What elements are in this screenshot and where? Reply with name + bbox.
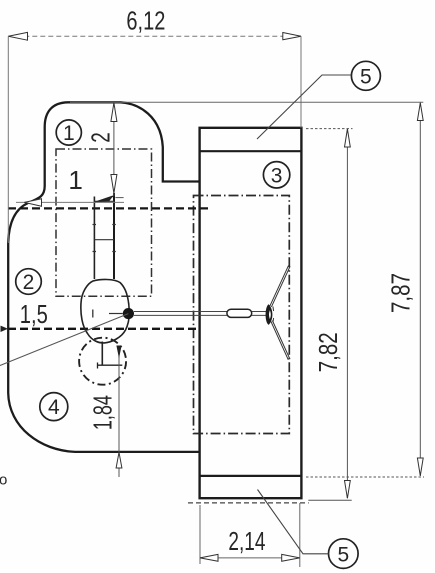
pin top edge [94, 200, 114, 202]
V lower arm [271, 321, 289, 360]
dash-dot rectangle region 1 [56, 149, 152, 296]
svg-text:7,82: 7,82 [315, 332, 343, 372]
6,12 left arrow [8, 32, 27, 40]
top extension line y=102 [70, 101, 423, 103]
balloon 5 bottom leader [258, 490, 329, 554]
7,82 bottom extension [308, 499, 351, 501]
balloon 5 bottom [329, 539, 359, 569]
balloon 5 top [351, 61, 380, 90]
svg-text:1: 1 [68, 165, 82, 195]
6,12 right extension line [300, 36, 302, 128]
6,12 left extension line [7, 36, 9, 243]
pin cross line [94, 239, 114, 241]
center line dashed upper [8, 207, 211, 209]
leader from pivot dot to lower left [0, 314, 128, 366]
dimension 1,5 line [16, 201, 124, 203]
svg-text:7,87: 7,87 [388, 273, 416, 313]
svg-text:2: 2 [86, 132, 116, 143]
svg-text:4: 4 [48, 396, 60, 419]
7,82 top arrow [345, 129, 351, 147]
svg-text:5: 5 [360, 66, 372, 89]
bottom hidden dashed line [188, 502, 309, 504]
dimension 2 vertical line [113, 103, 115, 196]
balloon 5 top leader [257, 75, 351, 139]
balloon 1 [56, 120, 81, 145]
7,82 bottom arrow [345, 481, 351, 499]
phantom dash-dot circle [79, 338, 126, 385]
svg-text:1: 1 [63, 122, 75, 145]
svg-text:1,5: 1,5 [20, 301, 48, 329]
center line dashed lower [8, 328, 197, 330]
2,14 left arrow [200, 554, 218, 561]
slanted arrow at pin top [95, 196, 113, 202]
V upper arm [270, 266, 289, 307]
dimension 7,87 vertical line [419, 103, 421, 477]
svg-text:5: 5 [337, 543, 349, 566]
7,87 bottom dashed extension [306, 476, 424, 478]
balloon 3 [263, 162, 289, 188]
2,14 right arrow [282, 554, 300, 561]
body outline left part view [8, 102, 200, 452]
2,14 right extension [299, 503, 301, 567]
dimension 7,82 vertical line [346, 129, 348, 498]
7,82 top dashed extension [306, 128, 353, 130]
cam blob outline [81, 279, 129, 342]
dimension 2,14 line [200, 557, 300, 559]
dimension 1,84 vertical line [118, 346, 120, 477]
2 top arrow [111, 103, 117, 122]
svg-text:o: o [0, 472, 7, 489]
1,5 left arrow [24, 199, 41, 207]
pin right edge [113, 193, 115, 279]
balloon 2 [16, 269, 42, 295]
svg-text:3: 3 [271, 164, 283, 187]
flange top inner line [200, 150, 302, 152]
svg-text:2: 2 [23, 271, 35, 294]
small tick inside blob [92, 310, 94, 318]
2 bottom arrow [111, 175, 117, 194]
2,14 left extension [199, 505, 201, 564]
short line left of dot [109, 313, 123, 315]
7,87 bottom arrow [417, 458, 423, 476]
svg-text:2,14: 2,14 [228, 528, 265, 556]
flange rectangle side view [200, 128, 302, 498]
pin left edge [93, 197, 95, 280]
6,12 right arrow [283, 33, 301, 40]
capsule link on rod [227, 309, 252, 317]
V vertex crescent [266, 304, 273, 325]
flange bottom inner line [200, 475, 302, 477]
rod double line [134, 311, 267, 313]
balloon 4 [40, 393, 68, 421]
7,87 top arrow [417, 103, 423, 121]
tick right of pin top [115, 197, 123, 199]
svg-text:6,12: 6,12 [126, 7, 165, 35]
1,84 bottom arrow [116, 452, 122, 468]
1,84 top solid arrow [116, 346, 121, 359]
T shape inside circle [101, 342, 103, 366]
dash-dot rectangle region 3 [194, 196, 290, 434]
pivot black dot [123, 308, 134, 319]
pin side ticks [93, 224, 97, 226]
arrowhead at left edge on lower centerline [1, 326, 9, 332]
dimension 6,12 line [8, 35, 301, 37]
svg-text:1,84: 1,84 [90, 395, 118, 430]
